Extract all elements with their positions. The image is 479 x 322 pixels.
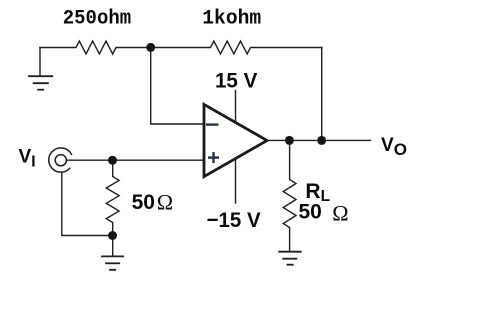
svg-text:Ω: Ω — [332, 201, 348, 226]
svg-text:−15 V: −15 V — [207, 208, 262, 232]
svg-text:250ohm: 250ohm — [63, 8, 131, 31]
svg-text:50: 50 — [299, 200, 322, 223]
svg-text:1kohm: 1kohm — [202, 8, 261, 31]
svg-text:50: 50 — [132, 191, 155, 214]
svg-text:15 V: 15 V — [215, 69, 258, 93]
svg-text:Ω: Ω — [157, 189, 173, 214]
